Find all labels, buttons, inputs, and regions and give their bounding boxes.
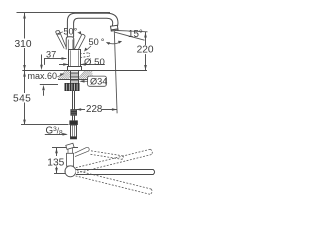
extension line bottom (hose end datum): [21, 124, 69, 126]
max.60 phantom bottom line: [40, 84, 58, 86]
svg-text:Ø 50: Ø 50: [84, 57, 105, 68]
leader 50deg second: [86, 46, 91, 50]
arrow down at counter top: [23, 65, 26, 70]
plan handle dashed position: [91, 151, 124, 160]
lever inner lines: [67, 40, 69, 50]
plan spout solid: [76, 170, 155, 175]
threaded shank through counter: [70, 71, 72, 84]
plan handle link lines: [67, 149, 69, 153]
label 545: [13, 93, 34, 103]
svg-text:228: 228: [86, 104, 103, 115]
plan spout dashed down: [76, 171, 153, 195]
15 deg upper line (220 extension): [117, 31, 148, 32]
connector block 1: [71, 110, 77, 116]
arrow up at spout top: [23, 13, 26, 18]
handle lever upright: [66, 37, 74, 50]
svg-text:50 °: 50 °: [89, 37, 105, 47]
label D34 box: [88, 76, 107, 86]
extension line top (spout top datum): [17, 12, 111, 14]
svg-text:max.60: max.60: [28, 71, 58, 81]
svg-text:Ø34: Ø34: [90, 76, 107, 86]
mounting nut dark: [65, 83, 80, 91]
max.60 bottom arrow: [43, 91, 45, 96]
handle lever tilted right: [74, 34, 85, 51]
counter top line: [22, 70, 147, 72]
dimension line 135: [56, 148, 58, 156]
svg-text:545: 545: [13, 94, 31, 105]
svg-text:310: 310: [15, 39, 32, 50]
outlet axis extension line down to 228: [114, 31, 117, 114]
outlet aerator block: [111, 25, 119, 31]
15 deg swivel arc with arrows: [107, 42, 122, 44]
dimension D50 arrows: [59, 64, 68, 66]
dimension line 220: [145, 32, 147, 71]
faucet body column: [69, 50, 81, 67]
svg-text:50°: 50°: [63, 26, 77, 36]
15 deg lower tilted line: [115, 32, 145, 40]
connector block 2 dark: [69, 120, 77, 125]
leader D34: [81, 80, 88, 82]
connector tube G3/8: [71, 125, 77, 139]
svg-text:135: 135: [47, 158, 64, 169]
spout tube riser: [67, 13, 107, 37]
label 220: [136, 45, 157, 54]
counter hatch left: [58, 71, 70, 79]
handle lever tilted left: [56, 31, 66, 49]
base flange: [68, 67, 82, 71]
dimension line 310/545 vertical: [24, 13, 26, 125]
counter bottom line: [58, 79, 93, 81]
supply rod upper: [72, 91, 74, 110]
leader left 50deg: [58, 32, 63, 34]
arrow up below counter: [23, 71, 26, 76]
plan body circle: [65, 166, 76, 177]
plan handle knob: [66, 143, 74, 149]
plan handle bar NE: [75, 147, 90, 156]
max.60 leader arrow to hatch: [57, 74, 62, 76]
plan extension line spout axis: [54, 173, 66, 175]
plan cartridge: [67, 153, 74, 166]
svg-text:15°: 15°: [128, 29, 143, 40]
leader right 50deg: [78, 32, 81, 34]
counter hatch right: [79, 71, 93, 79]
leader G3/8: [45, 134, 67, 136]
max.60 top arrow: [41, 55, 43, 66]
plan spout dashed up: [76, 149, 153, 173]
label 310: [14, 39, 35, 49]
svg-text:220: 220: [137, 44, 154, 55]
arrow down at hose end: [23, 120, 26, 125]
spout tube top-right bend and downspout: [107, 13, 118, 26]
plan extension line handle tip: [52, 147, 78, 149]
handle dashed horizontal position: [77, 53, 90, 58]
supply rod lower: [72, 115, 74, 120]
